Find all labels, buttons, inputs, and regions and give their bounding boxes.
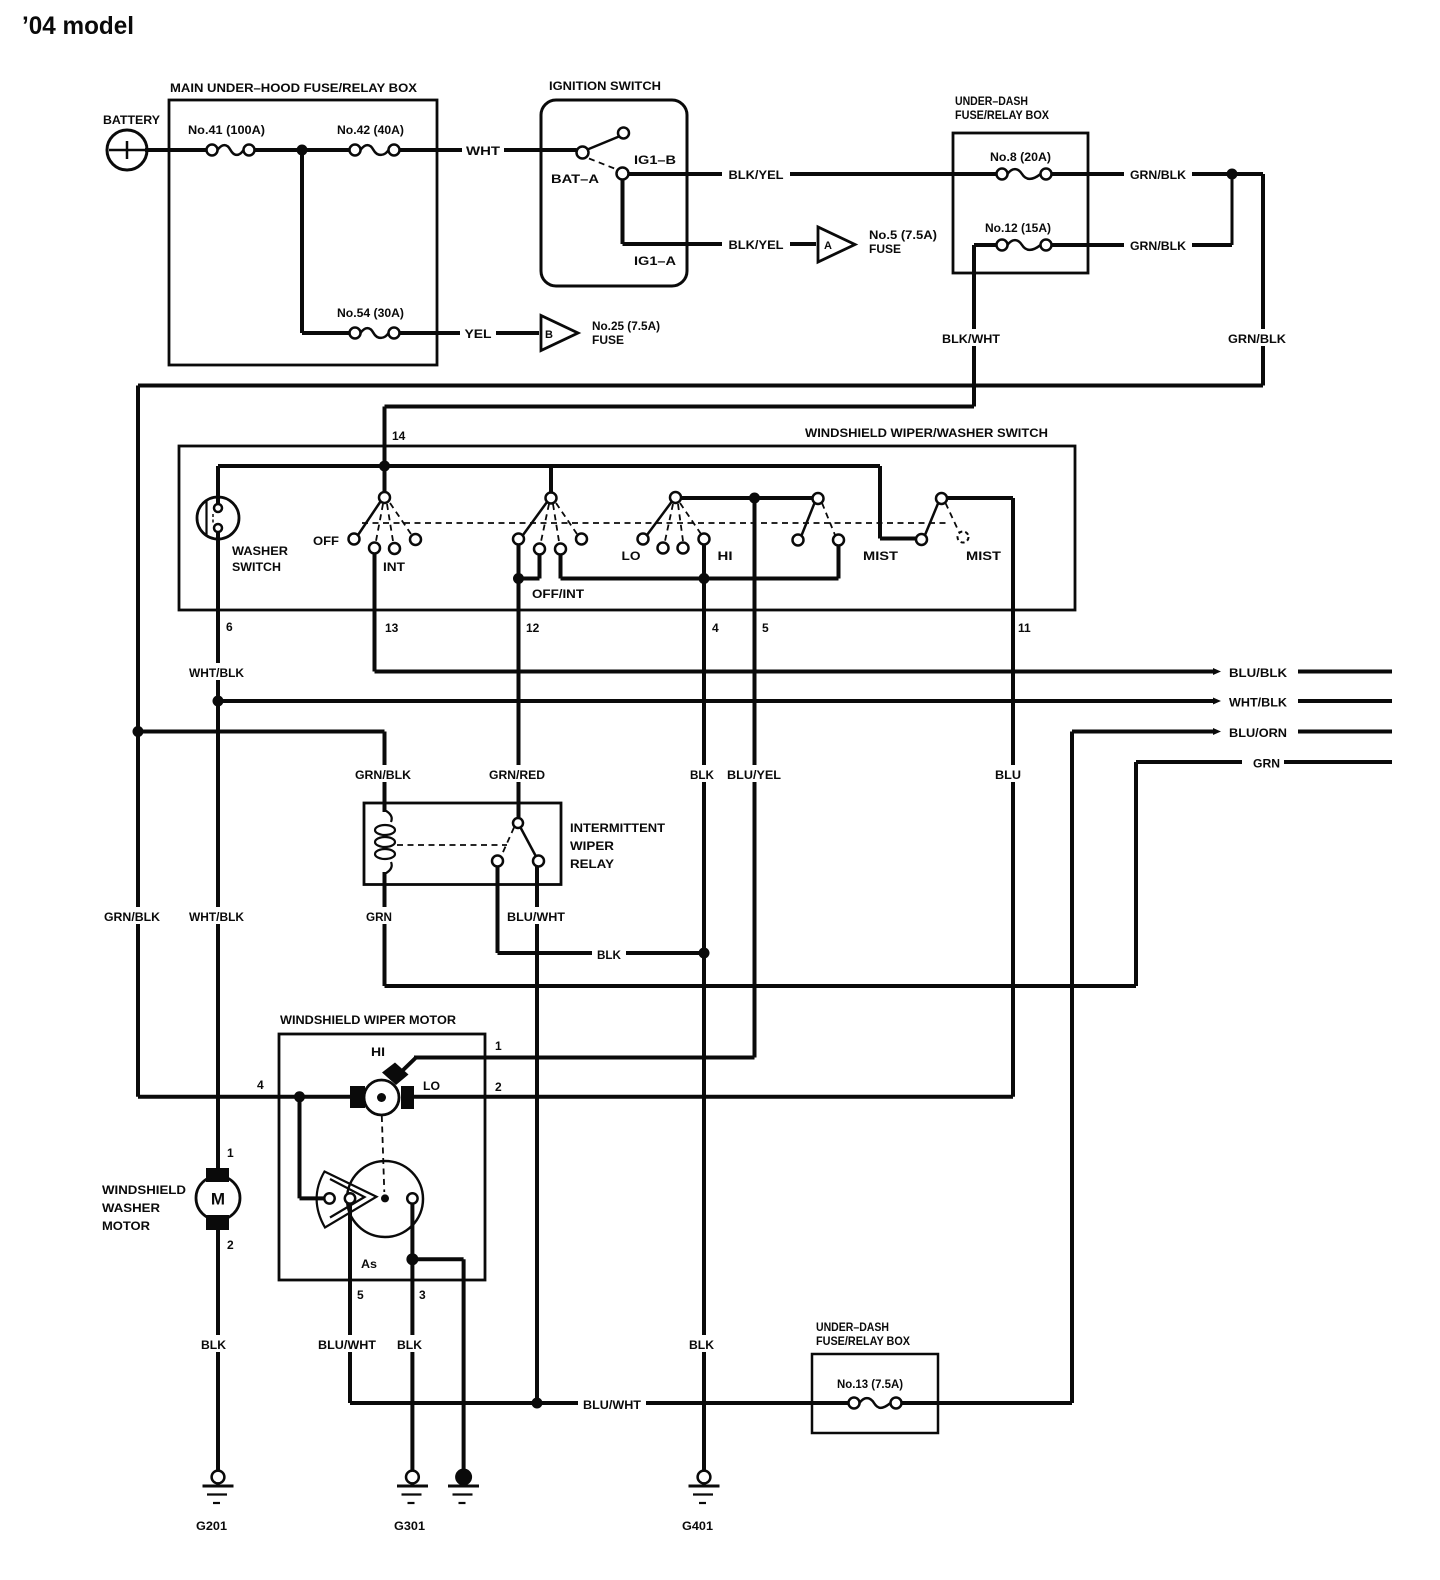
svg-text:11: 11 xyxy=(1018,621,1031,635)
MIST2 dashed throw and contact xyxy=(946,503,969,543)
svg-text:OFF: OFF xyxy=(313,536,339,548)
park contact left xyxy=(324,1193,334,1203)
label As xyxy=(361,1259,377,1271)
svg-text:BLK: BLK xyxy=(597,948,621,962)
fuse No.54 (30A) xyxy=(350,328,400,339)
wire YEL fuse54 to connector B xyxy=(400,331,540,335)
svg-text:G301: G301 xyxy=(394,1519,425,1533)
intermittent wiper relay box xyxy=(364,803,561,885)
svg-text:GRN: GRN xyxy=(366,910,392,924)
svg-text:G401: G401 xyxy=(682,1519,713,1533)
fuse No.42 value label xyxy=(337,123,404,137)
label HI xyxy=(371,1047,385,1059)
svg-text:HI: HI xyxy=(371,1047,385,1059)
svg-text:As: As xyxy=(361,1259,377,1271)
svg-text:BLU/WHT: BLU/WHT xyxy=(318,1338,377,1352)
wiper switch selector 3 LO contact xyxy=(638,534,649,545)
svg-text:WHT: WHT xyxy=(466,144,501,158)
junction node pin14 common xyxy=(379,461,390,472)
wiper switch selector 2 pivot xyxy=(546,493,557,504)
junction node GRN/BLK branch xyxy=(133,726,144,737)
wire bus BLU/ORN xyxy=(1072,728,1221,735)
svg-text:FUSE/RELAY BOX: FUSE/RELAY BOX xyxy=(816,1334,910,1348)
fuse No.54 value label xyxy=(337,306,404,320)
MIST1 right contact xyxy=(833,535,844,546)
svg-text:LO: LO xyxy=(622,551,641,563)
wire HI diagonal xyxy=(399,1058,755,1075)
selector1 arm to OFF xyxy=(349,502,381,545)
label motor pin 3 xyxy=(419,1288,426,1302)
svg-text:GRN/BLK: GRN/BLK xyxy=(1130,168,1186,182)
svg-text:WASHER: WASHER xyxy=(232,546,289,558)
park switch cam plate xyxy=(347,1161,423,1237)
wire common right leg xyxy=(880,466,917,539)
svg-text:SWITCH: SWITCH xyxy=(232,562,281,574)
svg-text:No.54 (30A): No.54 (30A) xyxy=(337,306,404,320)
wire pin12 from selector2 xyxy=(517,545,521,819)
wire BLU/ORN riser xyxy=(1070,732,1074,1404)
label GRN/BLK fuse8 row xyxy=(1124,166,1192,183)
junction node BLK pin4 xyxy=(699,948,710,959)
junction node motor branch xyxy=(294,1091,305,1102)
label BLK/WHT xyxy=(939,329,1004,346)
svg-text:1: 1 xyxy=(495,1039,502,1053)
svg-text:WINDSHIELD WIPER/WASHER SWITCH: WINDSHIELD WIPER/WASHER SWITCH xyxy=(805,426,1048,440)
label pin 4 xyxy=(712,621,719,635)
label LO xyxy=(622,551,641,563)
svg-text:FUSE: FUSE xyxy=(592,333,624,347)
ground G301 xyxy=(397,1471,428,1503)
label GRN/RED xyxy=(486,765,550,782)
MIST2 arm xyxy=(925,504,938,536)
svg-text:GRN/BLK: GRN/BLK xyxy=(1228,332,1286,346)
ground G401 xyxy=(689,1471,720,1503)
svg-text:BLU/WHT: BLU/WHT xyxy=(507,910,566,924)
windshield wiper motor box xyxy=(279,1034,485,1280)
selector3 pivot xyxy=(670,492,681,503)
label BLK/YEL lower xyxy=(722,236,790,253)
label MIST 1 xyxy=(863,551,898,563)
battery label xyxy=(103,113,160,127)
wire INT pin13 xyxy=(373,554,377,672)
wire common to selector2 pivot xyxy=(549,466,553,493)
svg-text:4: 4 xyxy=(712,621,719,635)
ground sealed dot xyxy=(448,1469,479,1504)
washer switch label xyxy=(232,546,289,574)
svg-text:GRN: GRN xyxy=(1253,757,1280,771)
fuse No.41 (100A) xyxy=(207,145,255,156)
selector3 arm xyxy=(647,502,672,535)
wire pin4 BLK vertical xyxy=(702,545,706,1471)
svg-text:IGNITION SWITCH: IGNITION SWITCH xyxy=(549,79,661,93)
label G201 xyxy=(196,1519,227,1533)
svg-text:No.12 (15A): No.12 (15A) xyxy=(985,221,1051,235)
MIST2 left contact xyxy=(916,534,927,545)
wire park branch xyxy=(300,1097,325,1199)
wire GRN riser xyxy=(1134,762,1138,986)
selector2 arm xyxy=(513,502,547,545)
svg-text:1: 1 xyxy=(227,1146,234,1160)
label BLU/WHT bottom xyxy=(578,1395,646,1412)
park contact right xyxy=(407,1193,417,1203)
wire MIST1 contact down xyxy=(837,546,841,579)
wire BLK from relay NC xyxy=(498,867,705,954)
junction node pin6 bus xyxy=(213,696,224,707)
battery B1 xyxy=(107,130,147,170)
wiper switch selector 1 pivot xyxy=(379,492,390,503)
label WHT/BLK pin6 vertical xyxy=(186,907,248,924)
relay dashed link xyxy=(397,844,507,846)
wire pin14 vertical xyxy=(383,407,387,498)
svg-text:No.5 (7.5A): No.5 (7.5A) xyxy=(869,228,937,242)
wire OFF/INT line to MIST xyxy=(561,555,839,579)
wire battery to main fuse box xyxy=(145,148,207,152)
svg-text:MAIN UNDER–HOOD FUSE/RELAY BOX: MAIN UNDER–HOOD FUSE/RELAY BOX xyxy=(170,81,417,95)
svg-text:BLU/ORN: BLU/ORN xyxy=(1229,726,1287,740)
svg-text:RELAY: RELAY xyxy=(570,859,614,871)
label washer pin 2 xyxy=(227,1238,234,1252)
ignition dashed throw xyxy=(589,159,617,170)
label BLK washer ground wire xyxy=(198,1335,230,1352)
junction node BLU/WHT xyxy=(532,1398,543,1409)
svg-text:MOTOR: MOTOR xyxy=(102,1221,151,1233)
wire park mid BLU/WHT down xyxy=(348,1204,352,1403)
svg-text:WHT/BLK: WHT/BLK xyxy=(189,910,244,924)
label WHT/BLK left xyxy=(186,663,248,680)
ignition contact IG1 xyxy=(617,168,629,180)
wire junction down to fuse54 xyxy=(302,150,350,333)
svg-text:IG1–A: IG1–A xyxy=(634,254,676,268)
ignition switch arm xyxy=(588,128,630,150)
wire MIST2 pivot to pin11 xyxy=(947,496,1013,500)
svg-text:WINDSHIELD: WINDSHIELD xyxy=(102,1185,186,1197)
svg-text:BLK/YEL: BLK/YEL xyxy=(729,168,784,182)
junction node As xyxy=(406,1253,418,1265)
junction node fuse box xyxy=(297,145,308,156)
svg-text:MIST: MIST xyxy=(863,551,898,563)
motor terminal HI diamond xyxy=(382,1063,409,1086)
wire bus GRN right stub xyxy=(1284,760,1392,764)
wire switch common line xyxy=(218,464,880,468)
MIST1 arm xyxy=(793,503,815,546)
label BLU/WHT relay xyxy=(504,907,570,924)
svg-text:3: 3 xyxy=(419,1288,426,1302)
wire link dot to contact2 xyxy=(519,555,540,579)
svg-text:GRN/RED: GRN/RED xyxy=(489,768,545,782)
label INT xyxy=(383,562,405,574)
wiper motor box label xyxy=(280,1013,456,1027)
wire motor feed left xyxy=(138,1095,350,1099)
selector2 dashed throws xyxy=(541,503,577,542)
label pin 13 xyxy=(385,621,399,635)
svg-text:’04 model: ’04 model xyxy=(22,12,134,40)
wire pin11 BLU vertical xyxy=(1011,498,1015,1097)
relay NC contact xyxy=(492,828,514,867)
svg-text:No.8 (20A): No.8 (20A) xyxy=(990,150,1051,164)
svg-text:WHT/BLK: WHT/BLK xyxy=(189,666,244,680)
label BAT-A xyxy=(551,172,599,186)
label No.5 (7.5A) FUSE xyxy=(869,228,937,256)
wire IG1-A BLK/YEL to connector A xyxy=(623,180,817,245)
svg-text:BLK/YEL: BLK/YEL xyxy=(729,238,784,252)
svg-text:BLK: BLK xyxy=(689,1338,714,1352)
wire junction down to fuse12 row xyxy=(1231,174,1234,245)
selector3 dashed throws xyxy=(665,503,701,541)
label BLK relay xyxy=(592,945,626,962)
svg-text:BLU/YEL: BLU/YEL xyxy=(727,768,781,782)
label pin 12 xyxy=(526,621,540,635)
label BLK motor3 wire xyxy=(394,1335,426,1352)
relay switch pivot xyxy=(513,818,523,828)
svg-text:14: 14 xyxy=(392,429,406,443)
svg-text:No.41 (100A): No.41 (100A) xyxy=(188,123,265,137)
ignition switch label xyxy=(549,79,661,93)
svg-text:5: 5 xyxy=(357,1288,364,1302)
ignition contact BAT-A xyxy=(577,147,589,159)
motor terminal left xyxy=(350,1086,365,1108)
svg-text:UNDER–DASH: UNDER–DASH xyxy=(816,1320,889,1334)
svg-text:BLU/BLK: BLU/BLK xyxy=(1229,666,1287,680)
ignition switch box xyxy=(541,100,687,286)
selector1 contacts xyxy=(369,534,421,554)
fuse No.12 value label xyxy=(985,221,1051,235)
label 14 xyxy=(392,429,406,443)
label BLK/YEL upper xyxy=(722,166,790,183)
svg-text:G201: G201 xyxy=(196,1519,227,1533)
page title '04 model xyxy=(22,12,134,40)
label motor pin 1 xyxy=(495,1039,502,1053)
svg-text:INTERMITTENT: INTERMITTENT xyxy=(570,823,665,835)
main under-hood box label xyxy=(170,81,417,95)
label BLK pin4 xyxy=(686,765,716,782)
wire washer motor to ground xyxy=(216,1230,220,1471)
svg-text:YEL: YEL xyxy=(465,327,492,341)
svg-text:No.25 (7.5A): No.25 (7.5A) xyxy=(592,319,660,333)
wire bus BLU/ORN right stub xyxy=(1298,730,1392,734)
wire BLK/WHT horizontal to pin14 xyxy=(385,405,975,409)
label IG1-B xyxy=(634,153,676,167)
wire LO to pin11 xyxy=(414,1095,1013,1099)
label BLU/YEL pin5 xyxy=(724,765,785,782)
svg-text:LO: LO xyxy=(423,1081,440,1093)
svg-text:INT: INT xyxy=(383,562,405,574)
svg-text:6: 6 xyxy=(226,620,233,634)
relay switch arm xyxy=(521,828,545,867)
park contact mid xyxy=(345,1193,355,1203)
svg-text:B: B xyxy=(545,329,553,341)
fuse No.8 (20A) xyxy=(997,169,1052,180)
svg-text:No.13 (7.5A): No.13 (7.5A) xyxy=(837,1377,903,1391)
svg-text:BLU/WHT: BLU/WHT xyxy=(583,1398,642,1412)
label GRN/BLK fuse12 row xyxy=(1124,237,1192,254)
label GRN coil wire xyxy=(363,907,395,924)
svg-text:No.42 (40A): No.42 (40A) xyxy=(337,123,404,137)
svg-text:WASHER: WASHER xyxy=(102,1203,161,1215)
selector1 dashed throws xyxy=(376,503,411,541)
svg-text:A: A xyxy=(824,240,832,252)
selector3 contacts xyxy=(658,543,689,554)
svg-text:BLU: BLU xyxy=(995,768,1021,782)
label No.25 (7.5A) FUSE xyxy=(592,319,660,347)
svg-text:BAT–A: BAT–A xyxy=(551,172,599,186)
wire BLU/WHT bottom run xyxy=(350,1401,1072,1405)
svg-text:WIPER: WIPER xyxy=(570,841,615,853)
park cam wedge xyxy=(317,1172,377,1228)
wire fuse41 to junction xyxy=(255,148,303,152)
label LO xyxy=(423,1081,440,1093)
svg-text:MIST: MIST xyxy=(966,551,1001,563)
svg-text:GRN/BLK: GRN/BLK xyxy=(355,768,411,782)
label WHT xyxy=(462,141,504,159)
label BLU/ORN bus xyxy=(1229,726,1287,740)
wire pin5 BLU/YEL vertical xyxy=(753,498,757,1058)
wire bus WHT/BLK right stub xyxy=(1298,699,1392,703)
wire bus WHT/BLK xyxy=(218,698,1221,705)
motor terminal right xyxy=(401,1086,414,1109)
label GRN/BLK coil xyxy=(352,765,416,782)
dashed gang line xyxy=(362,522,950,524)
MIST2 pivot xyxy=(936,493,947,504)
svg-text:2: 2 xyxy=(227,1238,234,1252)
wire BLU/WHT from relay xyxy=(535,867,539,1404)
wiper/washer switch box label xyxy=(805,426,1048,440)
junction node HI offint xyxy=(699,573,710,584)
label MIST 2 xyxy=(966,551,1001,563)
intermittent wiper relay label xyxy=(570,823,665,871)
wire WHT fuse42 to ignition switch xyxy=(400,148,577,152)
svg-text:BLK: BLK xyxy=(201,1338,226,1352)
wire As branch xyxy=(412,1259,463,1470)
svg-text:5: 5 xyxy=(762,621,769,635)
wire bus GRN xyxy=(1136,760,1242,764)
motor dashed shaft xyxy=(382,1116,385,1192)
wire GRN/BLK long horizontal xyxy=(138,384,1263,388)
fuse No.13 value label xyxy=(837,1377,903,1391)
MIST1 dashed throw xyxy=(822,503,835,535)
wire GRN/BLK left vertical xyxy=(136,386,140,1097)
label BLU/BLK bus xyxy=(1229,666,1287,680)
label IG1-A xyxy=(634,254,676,268)
washer switch SW2 xyxy=(197,497,239,539)
svg-text:12: 12 xyxy=(526,621,540,635)
wire pin6 WHT/BLK xyxy=(216,532,220,1168)
wire bus BLU/BLK right stub xyxy=(1298,670,1392,674)
under-dash bottom label xyxy=(816,1320,910,1348)
label G301 xyxy=(394,1519,425,1533)
label WHT/BLK bus xyxy=(1229,696,1287,710)
label BLK pin4 ground wire xyxy=(686,1335,718,1352)
label HI xyxy=(718,551,733,563)
label GRN/BLK left vertical xyxy=(101,907,165,924)
fuse No.8 value label xyxy=(990,150,1051,164)
wire IG1-B BLK/YEL to under-dash box xyxy=(629,172,997,176)
under-dash fuse/relay box (bottom) xyxy=(812,1354,938,1433)
label motor pin 5 xyxy=(357,1288,364,1302)
fuse No.12 (15A) xyxy=(974,240,1052,251)
under-dash box label xyxy=(955,94,1049,122)
wire park right As xyxy=(410,1204,414,1471)
svg-text:BLK: BLK xyxy=(397,1338,422,1352)
wire GRN/BLK from fuse8 xyxy=(1052,172,1264,176)
svg-text:4: 4 xyxy=(257,1078,264,1092)
label washer pin 1 xyxy=(227,1146,234,1160)
label GRN bus xyxy=(1253,757,1280,771)
wire GRN/BLK vertical right xyxy=(1261,174,1265,386)
ground G201 xyxy=(203,1471,234,1503)
label OFF/INT xyxy=(532,589,584,601)
svg-text:BLK: BLK xyxy=(690,768,714,782)
svg-text:FUSE/RELAY BOX: FUSE/RELAY BOX xyxy=(955,108,1049,122)
svg-text:WINDSHIELD WIPER MOTOR: WINDSHIELD WIPER MOTOR xyxy=(280,1013,456,1027)
label pin 6 xyxy=(226,620,233,634)
svg-text:UNDER–DASH: UNDER–DASH xyxy=(955,94,1028,108)
svg-text:WHT/BLK: WHT/BLK xyxy=(1229,696,1287,710)
svg-text:OFF/INT: OFF/INT xyxy=(532,589,584,601)
relay coil L1 xyxy=(375,810,395,874)
label pin 5 xyxy=(762,621,769,635)
junction node GRN/BLK rows xyxy=(1227,169,1238,180)
wire pivot3 to MIST1 pivot xyxy=(681,496,813,500)
washer motor M xyxy=(196,1168,240,1230)
connector arrow A xyxy=(818,227,855,262)
fuse No.42 (40A) xyxy=(350,145,400,156)
junction node pin5 xyxy=(749,493,760,504)
label motor pin 4 xyxy=(257,1078,264,1092)
wiper motor M armature xyxy=(364,1080,399,1115)
svg-text:GRN/BLK: GRN/BLK xyxy=(1130,239,1186,253)
svg-text:BATTERY: BATTERY xyxy=(103,113,160,127)
contact HI xyxy=(699,534,710,545)
svg-text:HI: HI xyxy=(718,551,733,563)
label BLU pin11 xyxy=(992,765,1024,782)
wire GRN/BLK branch to relay coil xyxy=(138,732,385,813)
svg-text:BLK/WHT: BLK/WHT xyxy=(942,332,1001,346)
svg-text:GRN/BLK: GRN/BLK xyxy=(104,910,160,924)
washer motor labels xyxy=(102,1185,186,1233)
wire GRN/BLK from fuse12 xyxy=(1052,243,1233,247)
wire common to washer switch xyxy=(216,466,220,504)
wire bus BLU/BLK xyxy=(375,668,1222,675)
label GRN/BLK vertical xyxy=(1225,329,1290,346)
svg-text:FUSE: FUSE xyxy=(869,242,901,256)
windshield wiper/washer switch box xyxy=(179,446,1075,610)
label motor pin 2 xyxy=(495,1080,502,1094)
wire BLK/WHT vertical from fuse12 xyxy=(972,245,976,407)
svg-text:M: M xyxy=(211,1190,225,1209)
svg-text:IG1–B: IG1–B xyxy=(634,153,676,167)
label YEL xyxy=(460,324,496,342)
wire GRN from coil xyxy=(385,872,1137,986)
main under-hood fuse/relay box xyxy=(169,100,437,365)
label OFF xyxy=(313,536,339,548)
label BLU/WHT motor5 wire xyxy=(315,1335,380,1352)
under-dash fuse/relay box (top) xyxy=(953,133,1088,273)
connector arrow B xyxy=(541,316,578,351)
selector2 contacts xyxy=(534,534,587,555)
junction node OFF/INT xyxy=(513,573,524,584)
label G401 xyxy=(682,1519,713,1533)
fuse No.13 (7.5A) xyxy=(849,1398,902,1409)
svg-text:2: 2 xyxy=(495,1080,502,1094)
wire junction to fuse42 xyxy=(302,148,350,152)
MIST1 pivot xyxy=(813,493,824,504)
label pin 11 xyxy=(1018,621,1031,635)
svg-text:13: 13 xyxy=(385,621,399,635)
fuse No.41 value label xyxy=(188,123,265,137)
